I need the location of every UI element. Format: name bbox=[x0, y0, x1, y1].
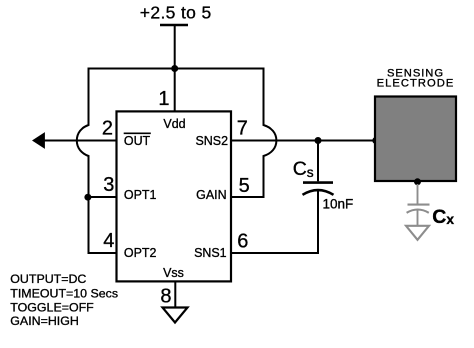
wire pin 6 SNS1 bbox=[231, 252, 319, 254]
svg-text:ELECTRODE: ELECTRODE bbox=[377, 78, 455, 90]
capacitor C_x (stray capacitance, gray) bbox=[407, 184, 430, 226]
svg-text:Vss: Vss bbox=[163, 266, 184, 280]
svg-text:OPT1: OPT1 bbox=[124, 188, 157, 202]
wire right vertical with hop (Vdd to GAIN) bbox=[264, 68, 277, 198]
wire pin 4 OPT2 bbox=[88, 252, 117, 254]
svg-text:1: 1 bbox=[158, 88, 169, 110]
ground (gray, Cx return) bbox=[406, 226, 429, 240]
ground bbox=[163, 308, 188, 323]
svg-text:8: 8 bbox=[160, 285, 171, 307]
svg-text:4: 4 bbox=[103, 230, 114, 252]
junction OPT1 node bbox=[84, 194, 91, 201]
junction Vdd node bbox=[171, 65, 178, 72]
svg-text:6: 6 bbox=[237, 231, 248, 253]
sensing electrode plate bbox=[375, 97, 456, 182]
junction SNS2/Cs node bbox=[315, 137, 322, 144]
svg-text:5: 5 bbox=[239, 175, 250, 197]
svg-text:OUT: OUT bbox=[124, 134, 151, 148]
wire left vertical with hop over OUT wire bbox=[77, 68, 89, 254]
wire pin 5 GAIN bbox=[231, 196, 265, 198]
svg-text:OPT2: OPT2 bbox=[124, 246, 157, 260]
junction electrode connection bbox=[372, 137, 379, 144]
junction electrode to Cx bbox=[414, 178, 421, 185]
wire top horizontal Vdd rail bbox=[89, 68, 264, 70]
svg-text:TIMEOUT=10 Secs: TIMEOUT=10 Secs bbox=[10, 287, 118, 301]
wire pin 7 SNS2 to electrode bbox=[231, 140, 376, 142]
svg-text:TOGGLE=OFF: TOGGLE=OFF bbox=[10, 300, 94, 314]
svg-text:SNS2: SNS2 bbox=[196, 134, 229, 148]
wire pin 8 Vss to ground bbox=[174, 282, 176, 308]
svg-text:2: 2 bbox=[102, 118, 113, 140]
supply terminal bar bbox=[160, 24, 188, 27]
IC U1 touch sensor body bbox=[117, 111, 232, 281]
arrow OUT output bbox=[32, 132, 45, 149]
wire pin 2 OUT bbox=[43, 140, 117, 142]
svg-text:10nF: 10nF bbox=[323, 197, 354, 212]
wire Vdd vertical (supply to pin 1) bbox=[174, 25, 176, 112]
svg-text:OUTPUT=DC: OUTPUT=DC bbox=[10, 272, 86, 286]
svg-text:GAIN: GAIN bbox=[196, 188, 226, 202]
capacitor C_s bbox=[303, 141, 334, 254]
svg-text:3: 3 bbox=[103, 174, 114, 196]
svg-text:+2.5 to 5: +2.5 to 5 bbox=[140, 2, 212, 22]
wire pin 3 OPT1 bbox=[89, 196, 117, 198]
svg-text:Vdd: Vdd bbox=[163, 117, 185, 131]
svg-text:SNS1: SNS1 bbox=[194, 246, 227, 260]
svg-text:7: 7 bbox=[237, 118, 248, 140]
svg-text:GAIN=HIGH: GAIN=HIGH bbox=[10, 314, 79, 328]
